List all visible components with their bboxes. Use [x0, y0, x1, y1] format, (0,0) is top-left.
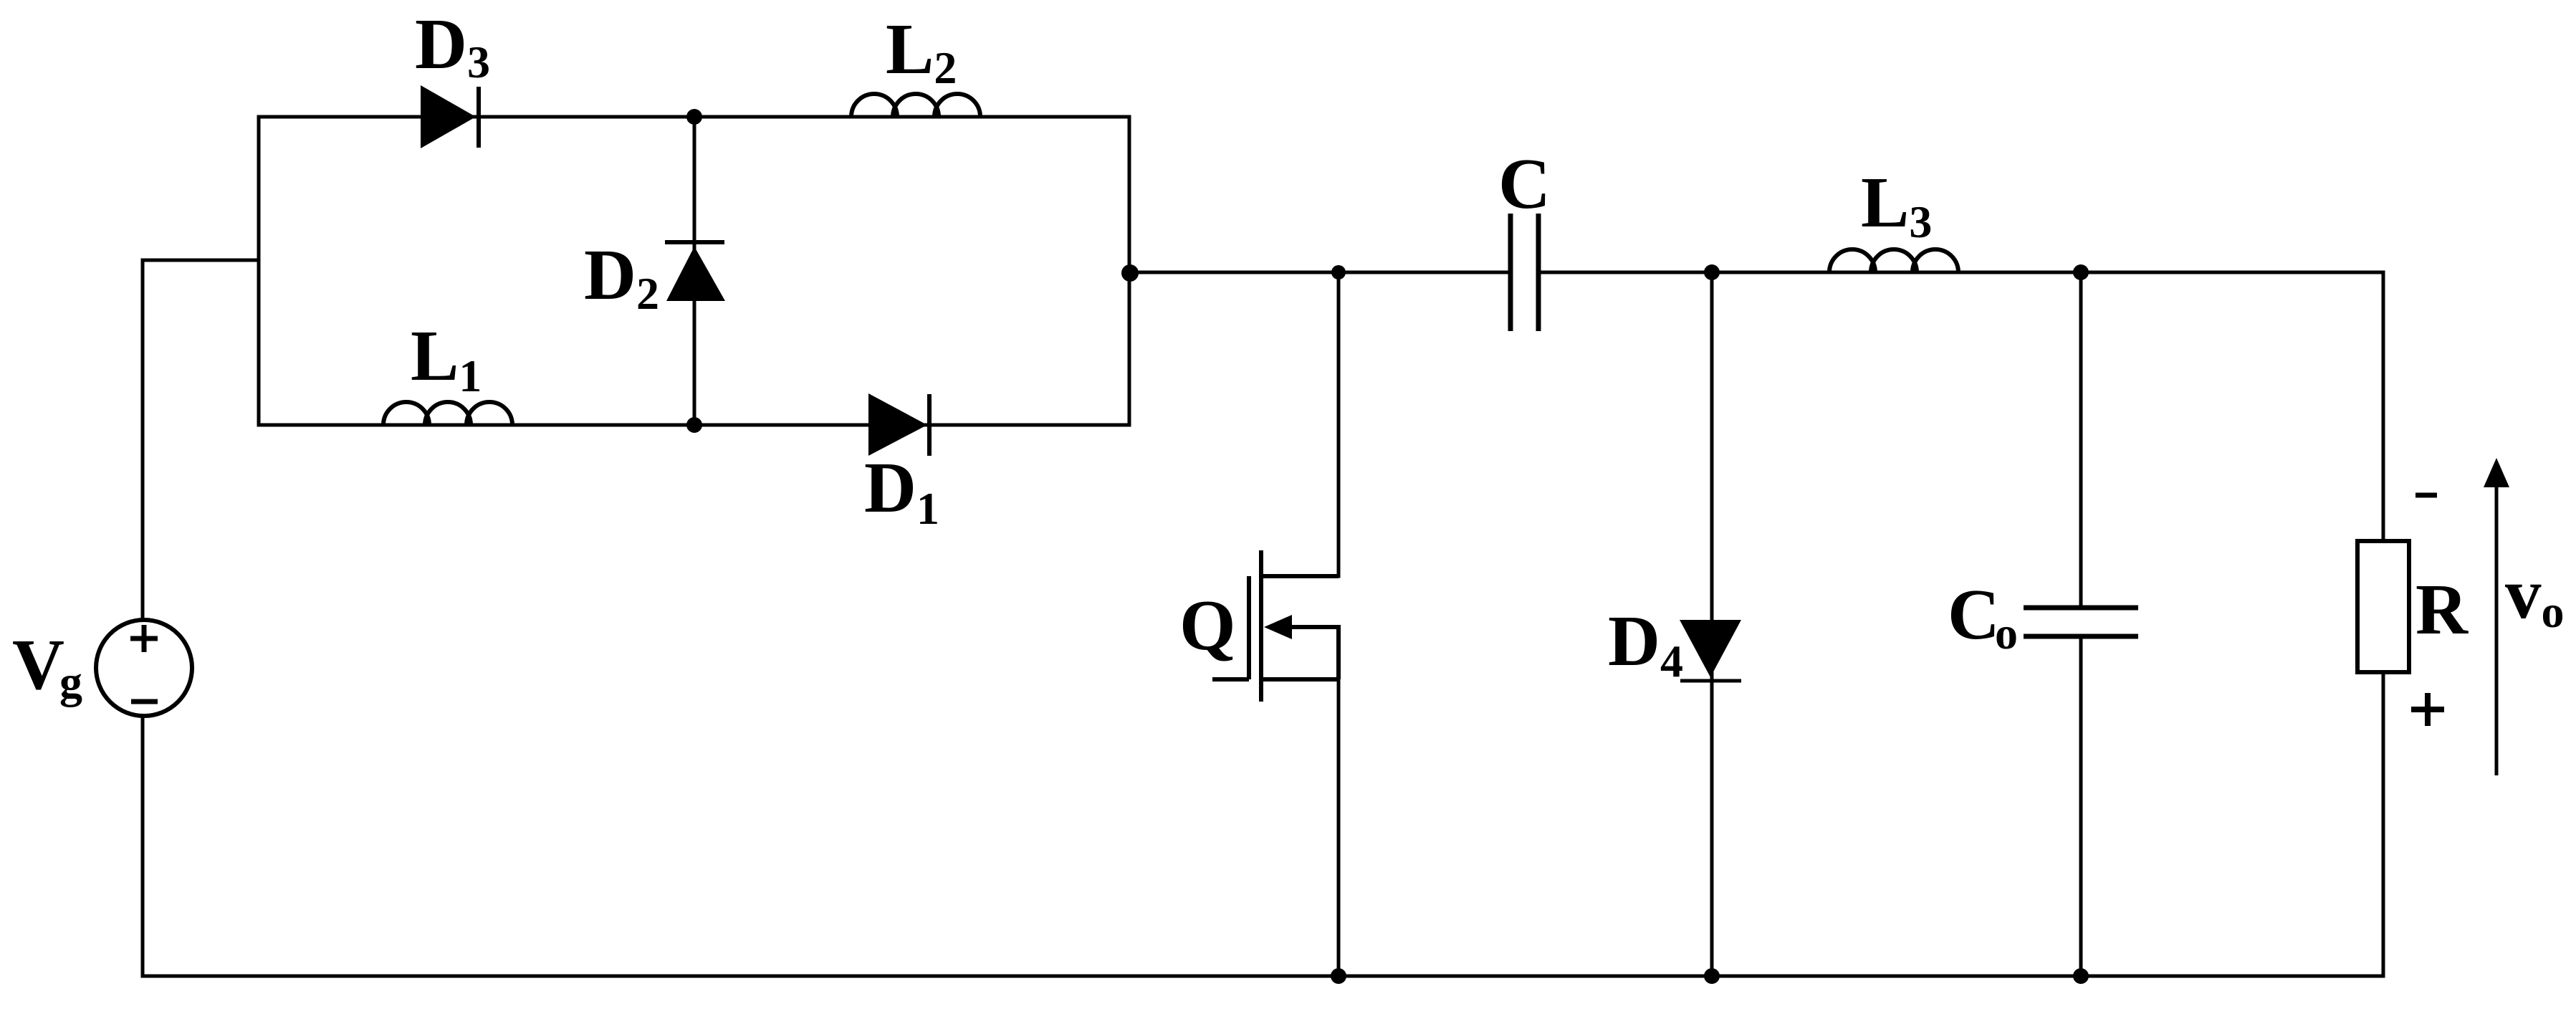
- wire Co bottom lead: [2079, 636, 2083, 976]
- capacitor Co: [2024, 608, 2138, 636]
- capacitor C: [1510, 214, 1538, 331]
- junction node dots: [686, 109, 2089, 984]
- wire left side of SL cell: [257, 117, 261, 425]
- wire main rail from C right plate to R corner: [1540, 271, 2383, 274]
- diode D4: [1680, 620, 1741, 681]
- MOSFET Q: [1212, 550, 1339, 702]
- resistor R: [2357, 541, 2409, 672]
- wire R branch lower: [2382, 672, 2385, 976]
- wire R branch upper: [2382, 272, 2385, 541]
- wire bottom rail of SL cell: [259, 424, 1129, 427]
- inductor L3: [1829, 249, 1958, 272]
- diode D2: [665, 242, 725, 301]
- arrow vo: [2484, 458, 2509, 775]
- wire Q drain vertical: [1337, 272, 1341, 576]
- wire Q source vertical: [1337, 679, 1341, 976]
- wire Co top lead: [2079, 272, 2083, 608]
- wire D4 branch: [1710, 272, 1714, 976]
- source Vg: [96, 620, 192, 716]
- minus sign of output polarity: [2415, 493, 2437, 498]
- diode D3: [421, 85, 479, 148]
- wire right side of SL cell: [1128, 117, 1131, 425]
- svg-text:Q: Q: [1179, 585, 1236, 665]
- svg-text:C: C: [1498, 143, 1551, 224]
- wire D2 branch: [693, 117, 696, 425]
- wire input link from Vg to cell: [143, 259, 259, 262]
- inductor L1: [383, 402, 512, 425]
- wire main node A rail (cell to C left plate): [1129, 271, 1509, 274]
- wire top rail of SL cell: [259, 115, 1129, 119]
- inductor L2: [851, 94, 980, 117]
- diode D1: [868, 393, 929, 456]
- wire bottom return rail: [143, 975, 2383, 978]
- wire Vg bottom lead: [141, 718, 145, 976]
- svg-text:R: R: [2415, 569, 2469, 649]
- plus sign of output polarity: [2411, 693, 2444, 726]
- wire Vg top lead: [141, 260, 145, 618]
